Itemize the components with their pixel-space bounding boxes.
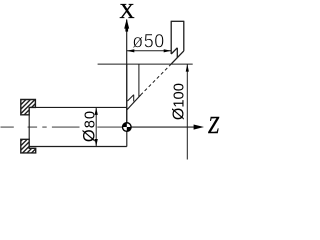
svg-text:ø50: ø50: [132, 30, 165, 52]
centerline (dash-dot): [1, 126, 123, 128]
Z axis arrowhead: [194, 125, 204, 130]
chuck bottom jaw (hatched): [4, 133, 52, 158]
tool at cutting position (at workpiece corner): [127, 64, 141, 110]
tool at start position (top right): [171, 21, 185, 64]
wire: workpiece bottom edge: [29, 146, 127, 148]
wire: workpiece left end face: [28, 115, 30, 140]
wire: workpiece top edge: [29, 106, 127, 108]
dim 50 left arrowhead: [127, 49, 135, 52]
extension line for diameter 100: [98, 63, 193, 65]
chuck top jaw (hatched): [1, 94, 45, 120]
tool rapid path (dashed 45 degrees): [141, 64, 171, 95]
X axis arrowhead: [124, 19, 129, 29]
workpiece origin symbol (quadrant circle): [123, 123, 132, 132]
dim 80 bottom arrowhead: [95, 139, 98, 147]
dimension line diameter 50: [127, 50, 171, 52]
dim 50 right arrowhead: [164, 49, 172, 52]
dimension line diameter 80: [95, 107, 97, 146]
wire: workpiece right end face: [126, 107, 128, 146]
dim 100 top arrowhead: [186, 64, 189, 72]
Z axis line: [127, 126, 196, 128]
dim 80 top arrowhead: [95, 107, 98, 115]
svg-text:Ø100: Ø100: [170, 83, 187, 120]
svg-text:X: X: [119, 0, 134, 23]
dimension line diameter 100: [186, 64, 188, 159]
svg-text:Ø80: Ø80: [81, 110, 99, 142]
svg-text:Z: Z: [208, 113, 220, 139]
X axis line: [126, 20, 128, 128]
